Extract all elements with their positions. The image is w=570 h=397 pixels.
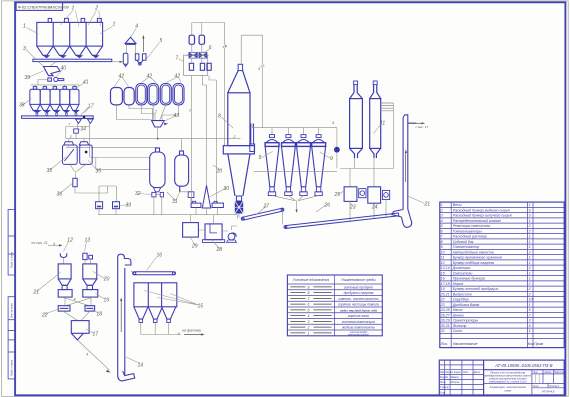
svg-text:Вибросито: Вибросито [453, 292, 472, 296]
svg-text:12: 12 [67, 238, 73, 244]
svg-text:Масштаб: Масштаб [554, 372, 565, 374]
svg-text:1: 1 [529, 271, 531, 275]
wire bins 42 discharge to chute 43 [117, 105, 179, 121]
svg-text:6: 6 [209, 45, 212, 51]
svg-text:9: 9 [441, 245, 443, 249]
cyclone 9 no.4 [312, 135, 326, 196]
svg-text:Судовой бак: Судовой бак [453, 240, 474, 244]
svg-text:10: 10 [529, 298, 533, 302]
svg-text:1: 1 [113, 22, 116, 28]
svg-text:30,31: 30,31 [441, 324, 450, 328]
svg-text:28,29: 28,29 [440, 319, 450, 323]
legend table media lines [287, 275, 382, 336]
wire columns bottoms to collector [340, 158, 393, 187]
svg-text:1: 1 [529, 240, 531, 244]
svg-text:2: 2 [154, 110, 157, 114]
wire line to box 29 and 28 [191, 215, 238, 231]
steam column 11 no.1 [350, 81, 363, 158]
svg-text:4: 4 [74, 298, 76, 302]
svg-text:Подп. и дата: Подп. и дата [10, 359, 14, 376]
heater striping beside column 2 [381, 103, 394, 111]
wire back run behind cyclones [254, 171, 337, 173]
wire warehouse feed arrow [48, 244, 60, 246]
wire cyclone manifold [252, 124, 337, 147]
svg-text:22: 22 [440, 298, 445, 302]
svg-text:13,14: 13,14 [441, 266, 450, 270]
svg-text:1: 1 [529, 235, 531, 239]
svg-text:3: 3 [307, 320, 309, 324]
packing bin 15 [134, 283, 177, 323]
svg-text:19: 19 [104, 298, 110, 304]
weigher 35 left [63, 142, 78, 165]
small discharge funnels under conveyor 17 [76, 119, 94, 123]
svg-text:6: 6 [529, 208, 531, 212]
svg-text:3: 3 [23, 46, 26, 52]
screw conveyor 27 [241, 208, 284, 220]
svg-text:5: 5 [258, 67, 260, 71]
left margin strip 2 [8, 297, 15, 379]
svg-text:1: 1 [529, 245, 531, 249]
chute 43 spout [164, 123, 168, 126]
valve bowties under unit 6 [187, 52, 209, 58]
svg-text:15: 15 [198, 304, 204, 310]
silo vent filters 2 [48, 18, 101, 22]
feeder 34 [74, 129, 79, 133]
svg-text:вентиляционный: вентиляционный [348, 334, 369, 337]
dosing trolley right of sieve 30 [212, 201, 223, 207]
wire chute 43 down to line 2 [157, 127, 159, 139]
cyclone 9 no.2 [282, 135, 296, 196]
dryer tower 8 [223, 64, 254, 196]
svg-text:Нория: Нория [453, 282, 464, 286]
svg-text:16: 16 [157, 253, 163, 259]
svg-text:21: 21 [424, 202, 431, 208]
svg-text:42: 42 [175, 74, 181, 80]
svg-text:41: 41 [83, 80, 89, 86]
title block right texts [532, 372, 566, 394]
wire feeder 34 to line 2 [75, 133, 77, 138]
svg-text:38: 38 [19, 103, 25, 109]
svg-text:28: 28 [216, 247, 223, 253]
storage bin 42 no.5 [160, 84, 171, 105]
svg-text:23: 23 [349, 205, 356, 211]
svg-text:Фильтр: Фильтр [453, 324, 467, 328]
svg-text:Скруббер: Скруббер [453, 298, 469, 302]
svg-text:Приемные бункера: Приемные бункера [453, 277, 485, 281]
storage bin 42 no.3 [136, 84, 147, 105]
wire weighers converge to mixer 36 [70, 164, 86, 178]
svg-text:2: 2 [528, 224, 531, 228]
svg-text:Петров: Петров [451, 382, 460, 384]
svg-text:Дата: Дата [473, 372, 481, 374]
pump between 25 and 24 [359, 189, 366, 198]
fan blower 32 [227, 233, 237, 242]
exhaust duct blue riser [250, 124, 255, 152]
rotary feeder under tower 8 [235, 201, 243, 214]
svg-text:1: 1 [529, 219, 531, 223]
svg-text:Лист: Лист [532, 386, 539, 388]
svg-text:Сито: Сито [453, 329, 463, 333]
svg-text:2: 2 [528, 287, 531, 291]
svg-text:9: 9 [307, 285, 309, 289]
wire funnel 12 to bin 21 [63, 258, 65, 264]
wire unit6 risers to top run [192, 23, 225, 147]
svg-text:1: 1 [529, 203, 531, 207]
svg-text:2: 2 [69, 135, 72, 139]
svg-text:2: 2 [233, 135, 236, 139]
svg-text:Расходный раствор: Расходный раствор [453, 235, 487, 239]
steaming tank 31 A [150, 148, 165, 192]
svg-text:Лит.: Лит. [532, 372, 539, 374]
separator 4 triangle [125, 37, 136, 44]
wire feed arrow into filter [112, 61, 122, 63]
wire break jog on exhaust [261, 64, 264, 68]
svg-text:24,25: 24,25 [440, 308, 450, 312]
svg-text:5: 5 [160, 38, 163, 44]
svg-text:36: 36 [57, 192, 63, 198]
wire separator 4 legs [126, 45, 135, 54]
conveyor 17 bar [22, 116, 94, 119]
svg-text:Дозаторы: Дозаторы [452, 266, 471, 270]
svg-text:19: 19 [441, 287, 445, 291]
svg-text:10: 10 [217, 169, 223, 175]
svg-text:18: 18 [97, 312, 103, 318]
svg-text:25: 25 [334, 192, 341, 198]
feed bin 21 [58, 264, 71, 290]
svg-text:Транспортеры: Транспортеры [453, 319, 479, 323]
svg-text:3: 3 [529, 214, 531, 218]
wire feeder to conveyor 27 [238, 214, 240, 218]
arrow to packing [184, 334, 202, 336]
title block right cells [532, 370, 564, 388]
svg-text:Набородобные емкости: Набородобные емкости [453, 250, 494, 254]
svg-text:1: 1 [529, 329, 531, 333]
svg-text:на фасовку: на фасовку [182, 329, 201, 333]
svg-text:17: 17 [93, 332, 99, 338]
bucket elevator 14 [118, 254, 135, 381]
arrow to packing from elevator 21 [411, 122, 423, 124]
svg-text:Т.контр.: Т.контр. [440, 387, 450, 389]
svg-text:24: 24 [371, 205, 378, 211]
junction dot on conveyor 17 [83, 116, 86, 119]
wire conveyor 3 discharge V into chute 39 [39, 62, 56, 67]
svg-text:21: 21 [33, 290, 40, 296]
feed bin 20 [83, 264, 97, 290]
specification table [440, 202, 564, 348]
svg-text:Расходный бункер сыпучего сырь: Расходный бункер сыпучего сырья [453, 214, 512, 218]
svg-text:2: 2 [528, 250, 531, 254]
cabinet 7 inner cells [189, 63, 211, 70]
svg-text:4: 4 [441, 219, 443, 223]
magnetic separator 22 [58, 306, 70, 311]
svg-text:Гомогенизаторы: Гомогенизаторы [453, 229, 482, 233]
svg-text:6: 6 [441, 229, 443, 233]
receiving funnel 12 [60, 253, 67, 257]
tower 8 neck to feeder [236, 196, 241, 201]
wire blower to collector [336, 153, 338, 169]
svg-text:2: 2 [528, 292, 531, 296]
feeder boxes 13 [83, 253, 93, 259]
chute 39 [44, 67, 61, 76]
conveyor 16 [133, 272, 176, 275]
svg-text:Прим: Прим [534, 342, 544, 346]
arrow cyclone discharge [296, 210, 298, 213]
discharge valve 5 of unit 4 [135, 54, 146, 65]
title block left grid texts [440, 371, 480, 394]
wire striping drop [392, 103, 394, 169]
svg-text:4: 4 [529, 324, 531, 328]
agitator dot in right weigher [85, 151, 88, 154]
storage bin 42 no.1 [111, 88, 123, 105]
svg-text:2: 2 [440, 208, 443, 212]
svg-text:42: 42 [119, 74, 125, 80]
elevator 14 inner arrow [120, 300, 122, 332]
svg-text:6: 6 [529, 308, 531, 312]
pump 33 right [113, 202, 120, 209]
svg-text:Утв.: Утв. [440, 392, 446, 394]
svg-text:10: 10 [441, 250, 445, 254]
svg-text:27: 27 [263, 204, 270, 210]
svg-text:Кол: Кол [528, 342, 534, 346]
svg-text:воды пар (вод./пром. в/д): воды пар (вод./пром. в/д) [340, 308, 377, 312]
storage bin 42 no.4 [148, 84, 159, 105]
wire feeders 13 to bin 20 [85, 259, 91, 264]
wire cabinet 7 down feeds [192, 75, 217, 203]
svg-text:АТ-09.10596-.0106.0563-ПЗ-В: АТ-09.10596-.0106.0563-ПЗ-В [494, 363, 553, 368]
svg-text:34: 34 [80, 127, 86, 133]
svg-text:1: 1 [441, 203, 443, 207]
svg-text:20,21: 20,21 [440, 292, 450, 296]
svg-text:Иванов: Иванов [451, 377, 460, 379]
left margin strip 1 [8, 209, 15, 275]
svg-text:1: 1 [529, 303, 531, 307]
svg-text:Бункер готовой продукции: Бункер готовой продукции [453, 287, 499, 291]
svg-text:7: 7 [175, 56, 178, 62]
svg-text:39: 39 [25, 75, 31, 81]
dust collector box 28 [202, 224, 224, 243]
svg-text:Дробилка Вамм: Дробилка Вамм [452, 303, 480, 307]
svg-text:с мес. 17: с мес. 17 [416, 125, 429, 129]
svg-text:1: 1 [529, 256, 531, 260]
svg-text:Разраб.: Разраб. [440, 377, 449, 379]
svg-text:16: 16 [441, 277, 445, 281]
mixer 36 [73, 178, 77, 186]
bucket elevator 21 [392, 115, 416, 228]
svg-text:5: 5 [307, 308, 309, 312]
tank B discharge feeder [188, 192, 194, 198]
hopper 17 [71, 321, 89, 340]
title block middle title cell [484, 370, 532, 395]
pump right of 24 [382, 190, 389, 199]
wire line 2 horizontal [66, 138, 241, 140]
collector chute 43 [152, 121, 165, 127]
svg-text:5: 5 [441, 224, 443, 228]
sieve 30 triangle [202, 186, 210, 209]
mill feeder 40 [48, 77, 64, 81]
svg-text:Насос: Насос [453, 308, 463, 312]
svg-text:Расходный бункер жидкого сырья: Расходный бункер жидкого сырья [453, 208, 510, 212]
svg-text:2: 2 [528, 313, 531, 317]
svg-text:31: 31 [172, 199, 178, 205]
magnetic separator 18 [85, 306, 95, 311]
callout labels with leaders [23, 11, 425, 364]
wire separators to hopper 17 [63, 311, 90, 321]
svg-text:15: 15 [441, 271, 445, 275]
svg-text:Инв № подл.: Инв № подл. [10, 302, 14, 318]
wire elevator 14 head to conveyor 16 [131, 271, 133, 273]
svg-text:продукты нагрева: продукты нагрева [344, 291, 374, 295]
svg-text:Подп. и дата: Подп. и дата [10, 251, 14, 268]
wire hangers weighers [69, 139, 84, 142]
svg-text:4: 4 [332, 121, 334, 125]
blower circle [334, 147, 340, 153]
svg-text:измельч. интенсивность: измельч. интенсивность [338, 297, 379, 301]
svg-text:23: 23 [440, 303, 445, 307]
wire mixer 36 down to pumps bracket [75, 186, 117, 202]
storage bin 42 no.6 [173, 84, 184, 105]
cyclone 9 no.1 [265, 135, 279, 196]
bin 41 feeder valves [33, 110, 79, 115]
svg-text:26: 26 [324, 203, 331, 209]
svg-text:Шнеки: Шнеки [453, 313, 464, 317]
svg-text:Бункер подбора нагрева: Бункер подбора нагрева [453, 261, 494, 265]
control unit 6 (two dosers) [189, 35, 204, 44]
wire tower 8 top exhaust run [241, 35, 262, 127]
svg-text:Ф-02.СПЕКТРW.ВАХСХВ-09: Ф-02.СПЕКТРW.ВАХСХВ-09 [18, 5, 70, 10]
dosing trolley left of sieve 30 [191, 201, 201, 207]
svg-text:горячие газы: горячие газы [348, 314, 370, 318]
svg-text:3: 3 [441, 214, 443, 218]
svg-text:2: 2 [528, 266, 531, 270]
svg-text:2: 2 [94, 6, 98, 12]
svg-text:схема: схема [504, 390, 511, 393]
cabinet 7 outline [184, 55, 208, 75]
svg-text:40: 40 [61, 66, 67, 72]
wire conveyor 27 to conveyor 26 [282, 211, 284, 225]
svg-text:горячие частицы помола: горячие частицы помола [338, 303, 379, 307]
svg-text:со скл. 21: со скл. 21 [32, 241, 48, 245]
svg-text:Смесители: Смесители [453, 271, 473, 275]
svg-text:11: 11 [380, 121, 385, 127]
weigher 35 right [79, 142, 92, 165]
svg-text:комбикормов (I-го, и видов 1 ш: комбикормов (I-го, и видов 1 шт) [489, 381, 527, 384]
svg-text:8: 8 [307, 291, 309, 295]
wire break jog on riser [223, 45, 226, 49]
svg-text:Пров.: Пров. [440, 382, 446, 384]
wire mill 40 to bin manifold [31, 80, 80, 87]
svg-text:1: 1 [529, 277, 531, 281]
storage bin 42 no.2 [124, 88, 134, 105]
svg-text:Весы: Весы [453, 203, 462, 207]
svg-text:8: 8 [218, 114, 221, 120]
svg-text:29: 29 [191, 244, 198, 250]
svg-text:1: 1 [307, 331, 309, 335]
svg-text:жидкие компоненты: жидкие компоненты [341, 326, 375, 330]
flow number labels [53, 45, 334, 357]
svg-text:35: 35 [96, 169, 102, 175]
svg-text:Масса: Масса [545, 372, 553, 374]
junction dot chute-line2 [157, 138, 159, 140]
wire line 7 horizontal [66, 139, 182, 151]
svg-text:20: 20 [103, 277, 110, 283]
svg-text:3: 3 [529, 319, 531, 323]
svg-text:43: 43 [174, 113, 180, 119]
svg-text:Подп.: Подп. [463, 371, 469, 374]
svg-text:32: 32 [441, 329, 445, 333]
svg-text:1: 1 [72, 6, 75, 12]
title block left grid [439, 360, 483, 395]
silo battery 1 (4 silos) [37, 22, 103, 55]
svg-text:26,27: 26,27 [440, 313, 451, 317]
wire bin 15 spouts to packing line [141, 323, 181, 335]
svg-text:22: 22 [41, 313, 48, 319]
screw conveyor 26 [284, 213, 399, 228]
conveyor 3 under silos [33, 59, 112, 61]
svg-text:33: 33 [126, 203, 132, 209]
svg-text:17: 17 [88, 104, 94, 110]
filter cylinder of unit 4 [123, 53, 128, 66]
wire boxes down to conveyor 26 [350, 200, 386, 222]
svg-text:9: 9 [259, 155, 262, 161]
svg-text:12: 12 [441, 261, 445, 265]
svg-text:11: 11 [441, 256, 445, 260]
mixer box 24 [368, 187, 381, 203]
svg-text:АТ-04-4Э: АТ-04-4Э [541, 389, 555, 393]
wire chute hopper 17 to elevator boot [77, 340, 109, 370]
svg-text:2: 2 [528, 282, 531, 286]
wire trolleys to collect line [196, 208, 218, 215]
svg-text:4: 4 [135, 24, 138, 30]
svg-text:4: 4 [53, 242, 55, 246]
svg-text:14: 14 [138, 363, 144, 369]
svg-text:4: 4 [86, 353, 88, 357]
dust collector boxes 29 [183, 223, 199, 238]
wire cyclones converge to conveyor 26 [272, 196, 319, 211]
title block title texts [484, 372, 531, 393]
svg-text:42: 42 [147, 74, 153, 80]
crusher 22 upper [58, 290, 72, 298]
svg-text:2: 2 [528, 229, 531, 233]
svg-text:готовый продукт: готовый продукт [344, 285, 373, 289]
svg-text:готовая композиция: готовая композиция [342, 320, 375, 324]
wire tank discharges to line [154, 192, 191, 215]
svg-text:6: 6 [307, 303, 309, 307]
svg-text:8: 8 [441, 240, 443, 244]
mixer box 25 [344, 187, 357, 202]
dosing bin battery 41 (5 bins) [30, 87, 79, 111]
wire funnel1 down to feeder 34 [66, 123, 90, 158]
wire flange side line [225, 145, 228, 147]
cyclone 9 no.3 [297, 135, 311, 196]
title block frame [439, 360, 564, 395]
tank A discharge valves 32 [152, 192, 164, 197]
svg-text:1: 1 [189, 109, 191, 113]
svg-text:4: 4 [307, 314, 309, 318]
svg-text:Реакторы смесители: Реакторы смесители [453, 224, 491, 228]
steam column 11 no.2 [370, 81, 381, 158]
svg-text:Изм: Изм [440, 372, 445, 374]
svg-text:Распределительный клапан: Распределительный клапан [453, 219, 501, 223]
svg-text:Наименование среды: Наименование среды [341, 278, 376, 282]
elevator 21 inner arrow [404, 152, 406, 182]
silo hopper spout valves [43, 55, 100, 58]
svg-text:Гомогенизатор: Гомогенизатор [453, 245, 480, 249]
svg-text:Условные обозначения: Условные обозначения [293, 278, 330, 282]
air exhaust arrow of unit 4 [142, 38, 144, 53]
svg-text:Наименование: Наименование [453, 342, 478, 346]
svg-text:3: 3 [225, 45, 227, 49]
svg-text:Поз.: Поз. [441, 342, 448, 346]
